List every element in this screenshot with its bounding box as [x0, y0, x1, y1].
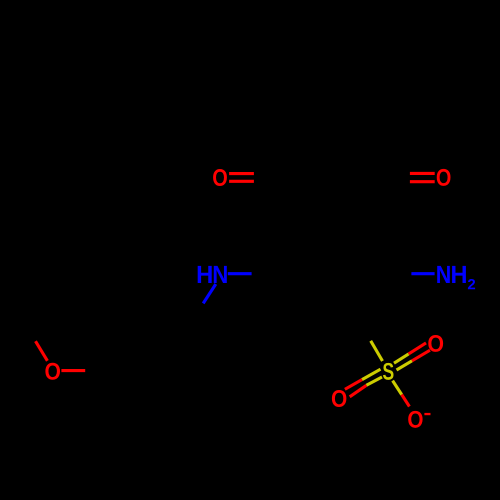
- subscript 2 of NH2: [468, 279, 475, 289]
- S=O double bond to top-right O, line A yellow half: [394, 354, 409, 363]
- S-O(-) single bond, yellow half: [393, 381, 402, 395]
- bond O-CH3, red half: [36, 341, 48, 361]
- bond O-C(phenyl), red half: [61, 369, 85, 372]
- C=O double bond (top-right, red halves): [410, 173, 435, 181]
- atom label H of HN (secondary amine): [198, 266, 212, 283]
- atom label O (top-right anthraquinone carbonyl): [437, 169, 451, 186]
- bond N-C(phenyl), blue half: [203, 284, 216, 303]
- S=O double bond to top-right O, line B red half: [412, 350, 430, 361]
- atom label O (sulfonyl, bottom-left): [332, 390, 346, 407]
- C=O double bond (top-left, red halves): [229, 174, 254, 182]
- atom label O (methoxy): [45, 363, 60, 380]
- minus charge bar: [424, 413, 430, 415]
- atom label O (sulfonyl, top-right): [428, 335, 443, 352]
- S=O double bond to bottom-left O, line B red half: [350, 385, 367, 397]
- atom label H of NH2: [452, 266, 466, 283]
- S=O double bond to bottom-left O, line A yellow half: [362, 369, 381, 379]
- bond N-C(anthracene), blue half: [228, 272, 252, 275]
- atom label O (top-left anthraquinone carbonyl): [213, 169, 227, 186]
- S=O double bond to bottom-left O, line A red half: [345, 380, 362, 390]
- S=O double bond to top-right O, line A red half: [409, 343, 426, 354]
- atom label O(-) (sulfonate O minus): [408, 411, 422, 428]
- S=O double bond to bottom-left O, line B yellow half: [366, 377, 382, 385]
- S-O(-) single bond, red half: [402, 395, 410, 407]
- atom label N of HN: [214, 266, 227, 283]
- atom label S (sulfonate): [383, 363, 394, 380]
- bond S-C(ring), yellow half: [371, 341, 383, 361]
- atom label N of NH2: [437, 266, 450, 283]
- bond C-NH2, blue half: [411, 272, 434, 275]
- S=O double bond to top-right O, line B yellow half: [397, 361, 413, 370]
